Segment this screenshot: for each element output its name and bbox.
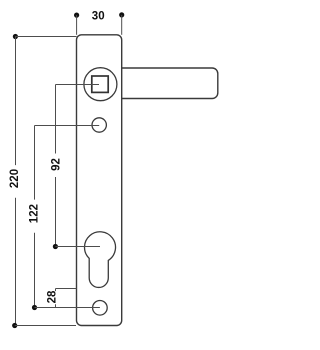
dim 92: lower vertical segment	[55, 177, 57, 247]
leader: bottom hole centre line	[35, 307, 100, 309]
dim 220: bottom dot	[12, 323, 17, 328]
dim 122: top leader to upper hole centre	[35, 125, 100, 127]
dim 28: lower vertical segment	[55, 304, 57, 307]
dim 122: bottom dot	[32, 305, 37, 310]
dim 30: left dot	[74, 13, 79, 18]
upper fixing hole	[92, 118, 106, 132]
dim 92: upper vertical segment	[55, 85, 57, 154]
bottom fixing hole	[93, 301, 108, 316]
lever handle	[122, 68, 218, 99]
svg-text:30: 30	[92, 10, 105, 22]
dim 122: upper vertical segment	[34, 126, 36, 200]
svg-text:220: 220	[9, 169, 21, 188]
dim 30: right dot	[119, 12, 124, 17]
dim 30: left extension line	[76, 15, 78, 35]
dim 92: bottom leader to cylinder centre	[55, 246, 100, 248]
svg-text:92: 92	[50, 158, 62, 171]
dim 122: lower vertical segment	[34, 233, 36, 308]
euro cylinder cutout	[85, 232, 116, 288]
dim 220: bottom leader	[15, 325, 76, 327]
dim 220: top leader	[15, 36, 76, 38]
dim 220: lower vertical segment	[15, 198, 17, 326]
dim 30: right extension line	[121, 15, 123, 35]
backplate	[77, 35, 122, 326]
dim 220: top dot	[13, 34, 18, 39]
spindle square hole	[92, 76, 108, 92]
spindle rose circle	[84, 68, 117, 101]
dim 28: top leader to plate edge	[56, 288, 77, 290]
svg-text:122: 122	[29, 204, 41, 223]
dim 92: top leader to spindle centre	[56, 84, 100, 86]
dim 28: upper vertical segment	[55, 289, 57, 292]
svg-text:28: 28	[46, 290, 58, 303]
dim 92: bottom dot	[53, 244, 58, 249]
dim 220: upper vertical segment	[15, 37, 17, 166]
